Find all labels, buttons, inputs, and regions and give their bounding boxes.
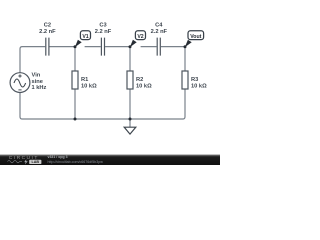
wire: R2 branch bottom [129,89,131,119]
ground [124,127,136,134]
svg-text:http://circuitlab.com/c6676df5: http://circuitlab.com/c6676df5b3pw [48,160,104,164]
wire: ground stub [129,119,131,127]
svg-text:C2: C2 [44,22,51,28]
voltage source Vin (sine 1 kHz) [10,73,46,93]
wire: R3 bottom + bottom rail + bottom-left corner + up to source [20,89,185,119]
probe V2 [130,31,146,48]
capacitor C3 [95,22,112,55]
wire: R1 branch bottom [74,89,76,119]
svg-text:10 kΩ: 10 kΩ [81,84,97,90]
node ground junction dot [129,118,132,121]
wire: C3 to node V2 [105,46,130,48]
svg-text:10 kΩ: 10 kΩ [136,84,152,90]
svg-text:10 kΩ: 10 kΩ [191,84,207,90]
svg-text:1 kHz: 1 kHz [32,85,47,91]
resistor R3 [182,71,207,90]
svg-text:V2: V2 [137,34,143,40]
svg-text:LAB: LAB [32,160,40,164]
resistor R1 [72,71,97,90]
wire: node V1 to C3 [85,46,101,48]
svg-text:R1: R1 [81,77,88,83]
svg-text:2.2 nF: 2.2 nF [39,29,56,35]
svg-text:Vout: Vout [190,34,201,40]
node V2 junction dot [129,45,132,48]
svg-text:sine: sine [32,79,43,85]
capacitor C2 [39,22,56,55]
wire: R2 branch top [129,47,131,71]
node R1-ground junction dot [74,118,77,121]
resistor R2 [127,71,152,90]
node Vout junction dot [184,45,187,48]
svg-text:R3: R3 [191,77,198,83]
svg-text:V1: V1 [82,34,88,40]
wire: right rail from Vout node down to R3 [184,47,186,71]
svg-text:C3: C3 [99,22,106,28]
svg-text:R2: R2 [136,77,143,83]
svg-text:2.2 nF: 2.2 nF [95,29,112,35]
wire: R1 branch top [74,47,76,71]
wire: node V2 to C4 [141,46,157,48]
wire: C2 to node V1 [50,46,76,48]
capacitor C4 [151,22,168,55]
probe Vout [185,31,204,48]
watermark CircuitLab logo [8,155,42,165]
wire: left rail top + top-left corner + lead to C2 [20,47,45,73]
node V1 junction dot [74,45,77,48]
svg-text:Vin: Vin [32,73,41,79]
svg-text:C4: C4 [155,22,163,28]
svg-text:2.2 nF: 2.2 nF [151,29,168,35]
watermark footer bar [0,154,220,165]
wire: C4 to node Vout [161,46,185,48]
probe V1 [75,31,91,48]
svg-text:v331 / opg 3: v331 / opg 3 [48,155,68,159]
